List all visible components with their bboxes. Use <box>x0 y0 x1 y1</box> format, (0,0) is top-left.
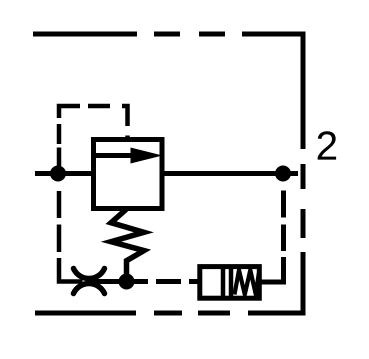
wire: pilot dash node 3 stub <box>127 279 149 284</box>
damper D1: piston line 2 <box>229 265 234 301</box>
wire: envelope bottom long dash <box>35 311 136 316</box>
wire: valve internal flow line <box>96 153 140 158</box>
wire: envelope bottom dash 3 <box>154 311 182 316</box>
wire: line from orifice to node 3 <box>91 279 127 284</box>
damper D1: piston line 1 <box>221 265 226 301</box>
wire: pilot drain dash 2 <box>57 225 62 253</box>
spring S1: valve bias spring <box>111 209 144 275</box>
damper D1: damping piston box <box>200 267 259 299</box>
node N1: junction on main line left <box>50 166 66 182</box>
wire: pilot drain bottom-left corner segment <box>59 258 83 282</box>
valve V1: relief valve body square <box>94 140 163 209</box>
wire: pilot riser dash 1 <box>281 225 286 252</box>
wire: pilot line left vertical dash 1 <box>57 124 62 144</box>
wire: main line from left end to valve inlet <box>35 171 94 176</box>
wire: envelope right dash 2 <box>301 209 306 238</box>
wire: pilot line top-right corner segment <box>122 106 128 126</box>
label: port 2 <box>318 131 336 159</box>
wire: pilot drain dash 1 below node 1 <box>57 191 62 218</box>
wire: pilot line left vertical dash 2 to node 1 <box>57 148 62 167</box>
node N3: junction below spring <box>119 274 135 290</box>
wire: solid corner from damper to pilot riser <box>259 257 284 282</box>
wire: envelope top long dash <box>33 32 137 37</box>
wire: pilot riser dash 2 to node 2 <box>281 191 286 218</box>
node N2: junction on main line right <box>275 166 291 182</box>
wire: pilot line up-left corner segment <box>59 106 80 118</box>
wire: envelope top-right corner segment <box>242 34 303 149</box>
arrow: valve internal flow arrowhead <box>131 148 163 164</box>
wire: envelope bottom dash 2 <box>198 311 230 316</box>
spring S2: damper spring <box>235 270 259 295</box>
wire: pilot line top dash <box>88 104 110 109</box>
orifice R1: restrictor lower arc <box>74 283 105 293</box>
wire: pilot dash to damper 1 <box>156 279 181 284</box>
wire: main line from valve outlet to port 2 <box>162 171 298 176</box>
wire: pilot dash to damper 2 <box>189 279 198 284</box>
wire: envelope right dash 1 (port 2 crossing) <box>301 164 306 189</box>
wire: envelope top dash 3 <box>199 32 225 37</box>
orifice R1: restrictor upper arc <box>74 269 105 279</box>
wire: envelope top dash 2 <box>154 32 180 37</box>
wire: envelope bottom-right corner segment <box>248 252 303 313</box>
wire: pilot line stub at valve top <box>125 136 130 140</box>
